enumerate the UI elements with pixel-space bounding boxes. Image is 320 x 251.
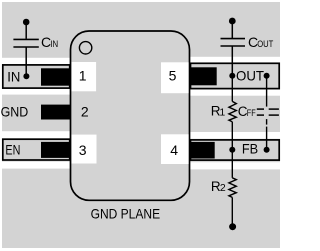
svg-text:FF: FF: [247, 108, 256, 119]
node dot on FB trace right: [264, 147, 270, 153]
svg-text:IN: IN: [7, 68, 20, 84]
svg-text:4: 4: [170, 142, 178, 158]
svg-text:1: 1: [79, 68, 87, 84]
pin 3 pad area: [72, 135, 97, 164]
pin 5 pad area: [161, 62, 189, 93]
OUT trace: [191, 63, 280, 88]
FB pad: [190, 142, 214, 159]
COUT top plate: [221, 38, 246, 40]
IN trace: [3, 65, 70, 88]
wire: [231, 21, 233, 38]
svg-text:2: 2: [220, 182, 226, 194]
CIN top plate: [13, 38, 38, 40]
svg-text:GND PLANE: GND PLANE: [91, 205, 161, 221]
pin-1 marker circle: [79, 42, 91, 54]
clearance band below OUT trace: [190, 89, 281, 95]
node dot bottom: [229, 223, 236, 230]
svg-text:1: 1: [219, 107, 225, 119]
node dot OUT right: [264, 73, 270, 79]
svg-text:2: 2: [81, 104, 89, 120]
clearance band above IN trace: [2, 58, 71, 64]
capacitor COUT: [221, 18, 246, 79]
CFF bottom plate: [257, 114, 264, 116]
CFF top plate: [257, 108, 264, 110]
FB trace: [191, 140, 280, 160]
CIN bottom plate: [13, 46, 38, 48]
svg-text:GND: GND: [1, 103, 29, 119]
svg-text:OUT: OUT: [257, 39, 273, 50]
node dot on IN trace: [23, 73, 29, 79]
wire: [231, 76, 233, 102]
svg-text:IN: IN: [50, 39, 58, 49]
clearance band above FB trace: [190, 132, 281, 139]
svg-text:3: 3: [79, 142, 87, 158]
node dot input top: [23, 19, 30, 26]
wire: [25, 22, 27, 39]
svg-text:EN: EN: [5, 141, 20, 157]
node dot output top: [229, 18, 236, 25]
EN pad: [41, 142, 71, 158]
COUT bottom plate: [221, 45, 246, 47]
wire: [231, 197, 233, 226]
pin 1 pad area: [72, 62, 97, 91]
clearance band below FB trace: [190, 162, 281, 169]
resistor R1: [229, 76, 236, 150]
EN trace: [3, 139, 70, 160]
IN pad: [41, 68, 71, 85]
node dot on FB trace left: [229, 147, 235, 153]
node dot on OUT trace: [229, 73, 235, 79]
wire: [231, 46, 233, 76]
svg-text:FB: FB: [242, 140, 258, 156]
clearance band above EN trace: [2, 131, 71, 138]
wire dash: [266, 119, 268, 125]
IC U1 package outline: [71, 31, 190, 200]
wire: [266, 76, 268, 107]
wire: [231, 150, 233, 178]
clearance band above OUT trace: [190, 57, 281, 63]
OUT pad: [190, 67, 216, 85]
clearance band below EN trace: [2, 162, 71, 169]
svg-text:5: 5: [169, 68, 177, 84]
capacitor CFF (optional, dashed): [257, 76, 279, 153]
wire: [266, 127, 268, 150]
wire: [231, 122, 233, 150]
clearance band below IN trace: [2, 89, 71, 95]
svg-text:OUT: OUT: [236, 68, 264, 84]
resistor R2: [229, 150, 236, 230]
wire: [25, 47, 27, 76]
pin 4 pad area: [161, 134, 189, 164]
R2 zigzag: [229, 178, 236, 198]
GND pad: [41, 105, 71, 120]
R1 zigzag: [229, 101, 236, 121]
capacitor CIN: [13, 19, 38, 79]
